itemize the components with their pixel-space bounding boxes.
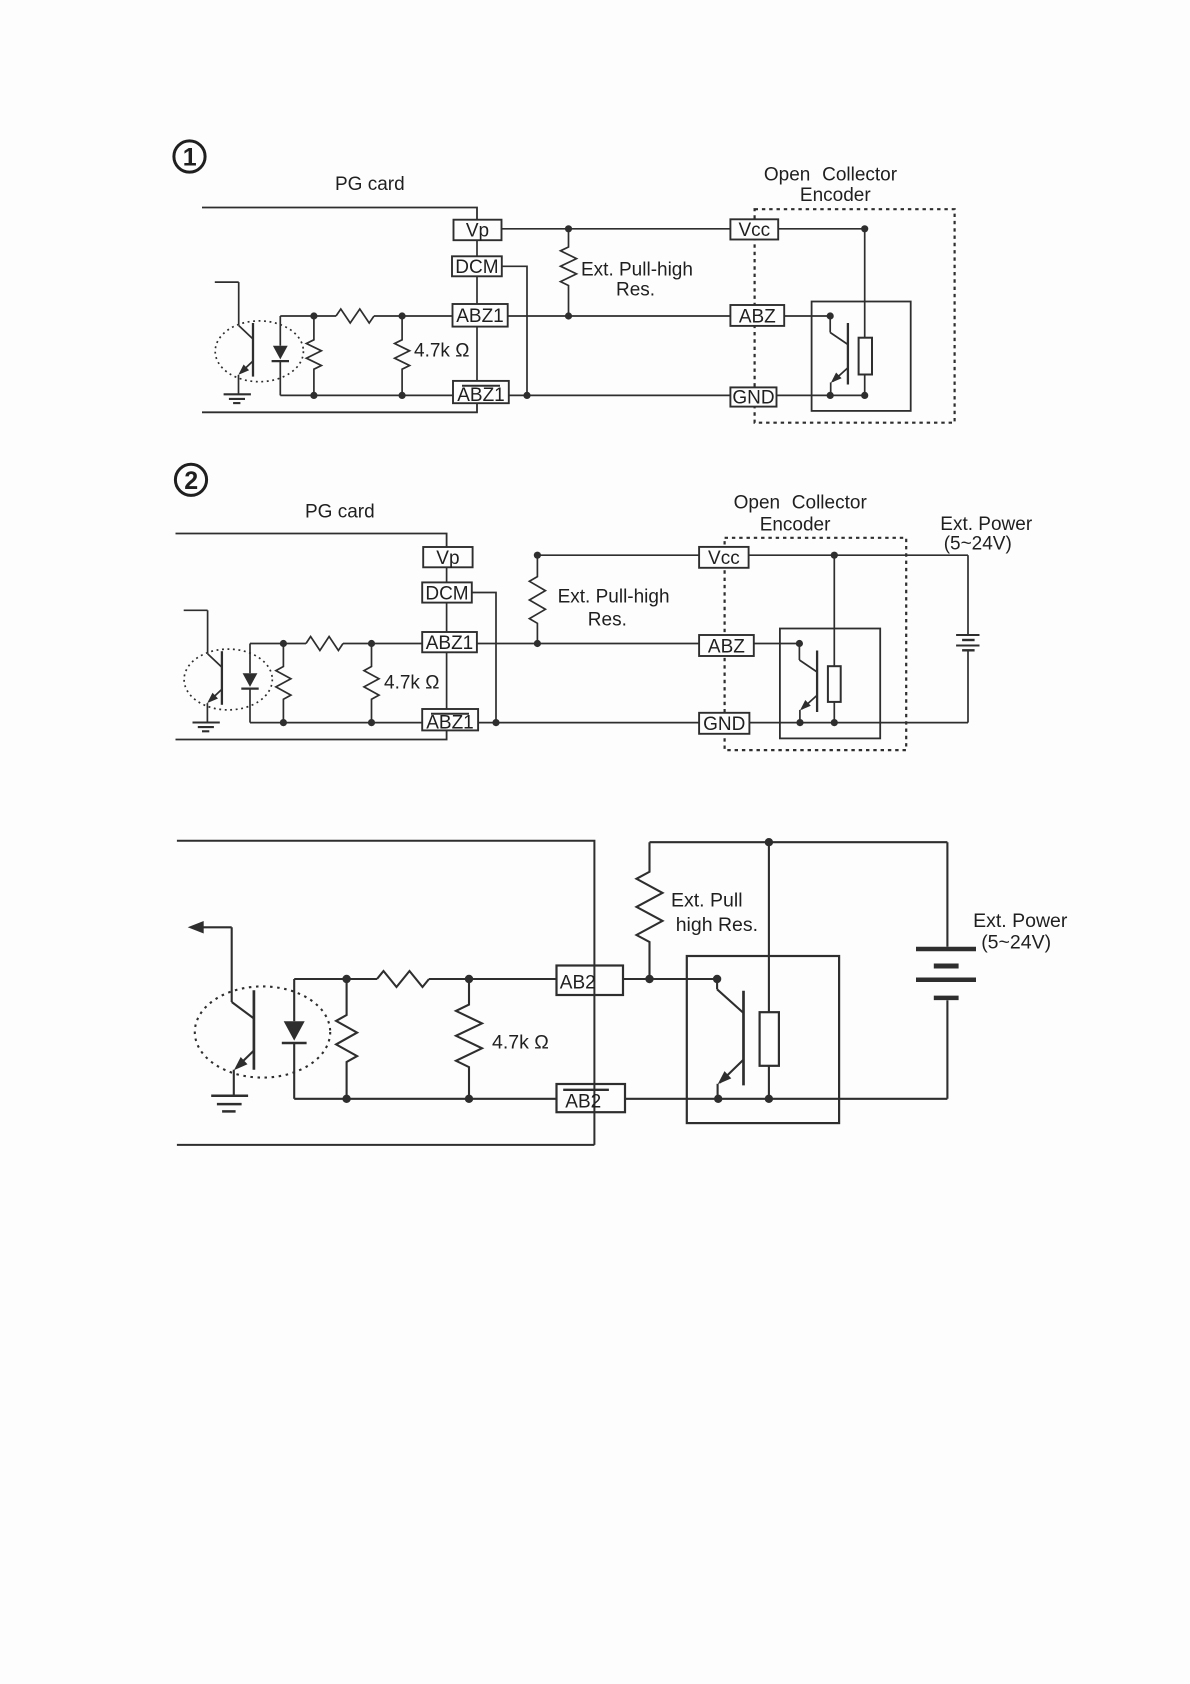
svg-text:Res.: Res. xyxy=(588,609,627,630)
junction resistor-GND xyxy=(861,392,868,399)
junction collector node xyxy=(827,312,834,319)
svg-text:Ext. Pull-high: Ext. Pull-high xyxy=(558,587,670,608)
junction collector node (circuit 3) xyxy=(713,975,721,983)
label Ext. Pull-high xyxy=(581,260,693,281)
junction xyxy=(368,719,375,726)
svg-text:Vcc: Vcc xyxy=(708,548,740,569)
resistor Ext. Pull-high Res. (circuit 2) xyxy=(529,555,545,643)
svg-text:Vcc: Vcc xyxy=(738,220,770,241)
label Ext. Power (circuit 2) xyxy=(940,514,1033,535)
wire GND rail to Ext. Power (circuit 2) xyxy=(749,722,968,724)
svg-text:4.7k Ω: 4.7k Ω xyxy=(492,1032,549,1054)
svg-text:Res.: Res. xyxy=(616,280,655,301)
junction collector node (circuit 2) xyxy=(796,640,803,647)
wire /AB2 GND rail (circuit 3) xyxy=(625,1098,947,1100)
svg-text:Vp: Vp xyxy=(466,221,489,242)
svg-text:2: 2 xyxy=(184,467,198,495)
phototransistor of optocoupler (circuit 3) xyxy=(232,990,254,1096)
junction xyxy=(280,640,287,647)
wire resistor to GND rail xyxy=(864,375,866,396)
terminal box Vp (circuit 2) xyxy=(423,547,472,569)
svg-text:ABZ1: ABZ1 xyxy=(456,306,504,327)
junction emitter-GND (circuit 2) xyxy=(796,719,803,726)
wire Ext. Power positive lead (circuit 2) xyxy=(967,555,969,634)
wire pull-up drop (circuit 2) xyxy=(833,555,835,666)
encoder output cell box (circuit 3) xyxy=(687,956,839,1123)
wire xyxy=(184,610,208,653)
svg-text:GND: GND xyxy=(703,714,745,735)
svg-text:Encoder: Encoder xyxy=(800,185,871,206)
dashed box Open Collector Encoder (circuit 1) xyxy=(755,209,955,423)
wire Vcc top rail (circuit 3) xyxy=(650,841,948,843)
resistor internal pull-up (circuit 2) xyxy=(828,666,841,702)
transistor open-collector output (circuit 2) xyxy=(799,644,817,723)
wire Vp to DCM xyxy=(476,240,478,256)
wire collector stub (circuit 3) xyxy=(202,927,232,1002)
svg-text:ABZ1: ABZ1 xyxy=(457,385,505,406)
wire pull-up drop (circuit 3) xyxy=(768,842,770,1012)
terminal box GND (circuit 2) xyxy=(699,713,749,735)
junction xyxy=(342,1095,350,1103)
resistor series (horizontal, circuit 3) xyxy=(377,971,429,987)
resistor Ext. Pull high Res. (circuit 3) xyxy=(637,842,663,979)
wire PG card bottom boundary (circuit 2) xyxy=(176,730,447,739)
junction Vcc net xyxy=(861,225,868,232)
label 4.7k ohm (circuit 1) xyxy=(414,341,469,362)
wire /ABZ1 to GND xyxy=(509,394,731,396)
junction xyxy=(465,1095,473,1103)
wire Vcc to Ext. Power (circuit 2) xyxy=(749,554,968,556)
label Open Collector (circuit 1) xyxy=(764,165,898,186)
optocoupler dotted ellipse xyxy=(215,321,303,382)
wire /ABZ1 to GND (circuit 2) xyxy=(478,722,699,724)
wire GND rail (circuit 1) xyxy=(777,394,865,396)
svg-text:Open: Open xyxy=(734,493,780,514)
resistor 4.7k (circuit 1) xyxy=(395,316,410,395)
wire resistor to GND rail (circuit 3) xyxy=(768,1066,770,1099)
wire ABZ1 to ABZ xyxy=(508,315,731,317)
circled number 1 xyxy=(174,141,205,172)
junction xyxy=(342,975,350,983)
terminal box Vcc (circuit 1) xyxy=(730,219,778,241)
label (5~24V) (circuit 3) xyxy=(981,932,1051,954)
wire DCM to ABZ1 xyxy=(476,276,478,304)
phototransistor of optocoupler xyxy=(238,323,253,394)
junction pull-high top (circuit 2) xyxy=(534,552,541,559)
wire ABZ1 to /ABZ1 (circuit 2) xyxy=(446,652,448,709)
label Ext. Power (circuit 3) xyxy=(973,910,1068,932)
wire Ext. Power negative lead (circuit 2) xyxy=(967,652,969,723)
wire ABZ to transistor (circuit 2) xyxy=(754,643,800,645)
svg-text:AB2: AB2 xyxy=(565,1092,601,1113)
svg-text:ABZ: ABZ xyxy=(739,306,776,327)
svg-text:AB2: AB2 xyxy=(560,972,596,993)
terminal box ABZ1 xyxy=(453,304,508,327)
svg-text:Open: Open xyxy=(764,165,810,186)
wire /ABZ1 bottom rail (circuit 2) xyxy=(250,722,422,724)
junction xyxy=(310,312,317,319)
terminal box DCM (circuit 2) xyxy=(422,582,472,604)
wire PG card top boundary (circuit 2) xyxy=(176,534,447,548)
junction pull-high bottom (circuit 3) xyxy=(645,975,653,983)
ground xyxy=(224,394,251,403)
resistor internal pull-up (circuit 1) xyxy=(859,338,872,375)
label PG card (circuit 1) xyxy=(335,174,405,195)
label high Res. (circuit 3) xyxy=(676,914,758,936)
svg-text:Collector: Collector xyxy=(792,493,868,514)
junction emitter-GND xyxy=(827,392,834,399)
svg-text:GND: GND xyxy=(732,387,774,408)
svg-text:Ext. Power: Ext. Power xyxy=(940,514,1033,535)
wire ABZ1 input rail xyxy=(280,315,452,317)
label (5~24V) (circuit 2) xyxy=(944,534,1012,555)
wire PG card boundary (circuit 3) xyxy=(177,841,595,1145)
encoder output cell box (circuit 2) xyxy=(780,629,880,739)
battery Ext. Power (circuit 2) xyxy=(956,635,979,650)
svg-text:DCM: DCM xyxy=(455,257,498,278)
wire Ext. Power negative lead (circuit 3) xyxy=(946,1000,948,1099)
junction xyxy=(399,312,406,319)
resistor 4.7k (circuit 2) xyxy=(364,644,379,723)
LED diode of optocoupler (circuit 2) xyxy=(241,644,258,723)
wire pull-high to Vcc (circuit 2) xyxy=(537,554,699,556)
arrow (collector lead, circuit 3) xyxy=(188,921,204,934)
resistor (left vertical, circuit 1) xyxy=(306,316,321,395)
junction xyxy=(399,392,406,399)
svg-text:Ext. Pull-high: Ext. Pull-high xyxy=(581,260,693,281)
resistor 4.7k (circuit 3) xyxy=(456,979,482,1099)
label Open Collector (circuit 2) xyxy=(734,493,868,514)
wire Ext. Power positive lead (circuit 3) xyxy=(946,842,948,947)
svg-text:ABZ1: ABZ1 xyxy=(426,633,474,654)
svg-text:PG card: PG card xyxy=(335,174,405,195)
junction /ABZ1 net (circuit 2) xyxy=(492,719,499,726)
svg-text:Ext. Power: Ext. Power xyxy=(973,910,1068,932)
junction pull-up top (circuit 3) xyxy=(765,838,773,846)
optocoupler dotted ellipse xyxy=(184,649,272,710)
label Encoder (circuit 1) xyxy=(800,185,871,206)
LED diode of optocoupler (circuit 3) xyxy=(282,979,307,1099)
junction ABZ1 net (circuit 2) xyxy=(534,640,541,647)
junction emitter-GND (circuit 3) xyxy=(714,1095,722,1103)
svg-text:ABZ: ABZ xyxy=(708,636,745,657)
svg-text:(5~24V): (5~24V) xyxy=(944,534,1012,555)
resistor (left vertical, circuit 2) xyxy=(276,644,291,723)
terminal box Vcc (circuit 2) xyxy=(699,547,749,569)
wire resistor to GND rail (circuit 2) xyxy=(833,702,835,723)
resistor series (horizontal, circuit 1) xyxy=(336,309,374,323)
wire /ABZ1 bottom rail xyxy=(280,394,453,396)
svg-text:4.7k Ω: 4.7k Ω xyxy=(384,673,439,694)
junction xyxy=(310,392,317,399)
junction /ABZ1 net xyxy=(523,392,530,399)
wire Vp to DCM (circuit 2) xyxy=(446,567,448,582)
label Res. xyxy=(616,280,655,301)
svg-text:ABZ1: ABZ1 xyxy=(426,713,474,734)
terminal box ABZ1 (circuit 2) xyxy=(422,632,477,654)
wire AB2 to encoder (circuit 3) xyxy=(623,978,717,980)
ground (circuit 3) xyxy=(211,1096,248,1112)
terminal box AB2 xyxy=(557,966,624,996)
label Res. (circuit 2) xyxy=(588,609,627,630)
junction ABZ1 net xyxy=(565,312,572,319)
junction Vp net xyxy=(565,225,572,232)
encoder output cell box (circuit 1) xyxy=(812,302,911,411)
terminal box /ABZ1 (ABZ1 inverted) xyxy=(453,381,509,406)
wire DCM to ABZ1 (circuit 2) xyxy=(446,603,448,632)
svg-text:Encoder: Encoder xyxy=(760,515,831,536)
wire /AB2 bottom rail (circuit 3) xyxy=(294,1098,556,1100)
junction Vcc net (circuit 2) xyxy=(831,552,838,559)
wire ABZ1 to /ABZ1 xyxy=(476,327,478,381)
wire xyxy=(215,282,239,325)
terminal box ABZ (circuit 1) xyxy=(730,305,784,327)
terminal box DCM xyxy=(452,256,502,278)
wire ABZ1 to ABZ (circuit 2) xyxy=(477,643,699,645)
junction xyxy=(465,975,473,983)
dashed box Open Collector Encoder (circuit 2) xyxy=(725,538,907,750)
wire ABZ to transistor xyxy=(784,315,830,317)
LED diode of optocoupler (circuit 1) xyxy=(272,316,289,395)
svg-text:DCM: DCM xyxy=(425,583,468,604)
label 4.7k ohm (circuit 3) xyxy=(492,1032,549,1054)
wire Vp to Vcc xyxy=(502,228,731,230)
transistor open-collector output (circuit 1) xyxy=(830,316,848,395)
terminal box /AB2 xyxy=(557,1084,626,1113)
resistor internal pull-up (circuit 3) xyxy=(760,1012,779,1066)
transistor open-collector output (circuit 3) xyxy=(717,979,743,1099)
terminal box /ABZ1 (circuit 2) xyxy=(422,709,478,734)
wire AB2 input rail (circuit 3) xyxy=(294,978,556,980)
wire DCM to /ABZ1 net (circuit 2) xyxy=(472,593,496,723)
terminal box ABZ (circuit 2) xyxy=(699,635,754,657)
wire Vcc to pull-up xyxy=(778,228,865,230)
label Ext. Pull (circuit 3) xyxy=(671,890,743,912)
optocoupler dotted ellipse (circuit 3) xyxy=(195,986,330,1077)
label Ext. Pull-high (circuit 2) xyxy=(558,587,670,608)
label 4.7k ohm (circuit 2) xyxy=(384,673,439,694)
svg-text:Collector: Collector xyxy=(822,165,898,186)
label Encoder (circuit 2) xyxy=(760,515,831,536)
svg-text:Vp: Vp xyxy=(436,548,459,569)
junction xyxy=(368,640,375,647)
wire DCM to /ABZ1 output net xyxy=(502,266,527,395)
circled number 2 xyxy=(175,464,206,495)
svg-text:Ext. Pull: Ext. Pull xyxy=(671,890,743,912)
junction resistor-GND (circuit 3) xyxy=(765,1095,773,1103)
svg-text:4.7k Ω: 4.7k Ω xyxy=(414,341,469,362)
svg-text:1: 1 xyxy=(183,144,197,172)
svg-text:(5~24V): (5~24V) xyxy=(981,932,1051,954)
battery Ext. Power (circuit 3) xyxy=(916,949,976,998)
label PG card (circuit 2) xyxy=(305,502,375,523)
resistor Ext. Pull-high Res. (circuit 1) xyxy=(561,229,577,316)
terminal box GND (circuit 1) xyxy=(730,387,776,408)
junction xyxy=(280,719,287,726)
wire PG card bottom boundary xyxy=(202,403,477,412)
svg-text:PG card: PG card xyxy=(305,502,375,523)
svg-text:high Res.: high Res. xyxy=(676,914,758,936)
phototransistor of optocoupler xyxy=(207,651,222,722)
terminal box Vp xyxy=(454,220,502,242)
resistor (left vertical, circuit 3) xyxy=(336,979,357,1099)
wire ABZ1 input rail (circuit 2) xyxy=(250,643,422,645)
resistor series (horizontal, circuit 2) xyxy=(306,637,343,651)
wire pull-up drop xyxy=(864,229,866,338)
wire PG card top boundary xyxy=(202,208,477,220)
junction resistor-GND (circuit 2) xyxy=(831,719,838,726)
ground xyxy=(193,723,220,732)
